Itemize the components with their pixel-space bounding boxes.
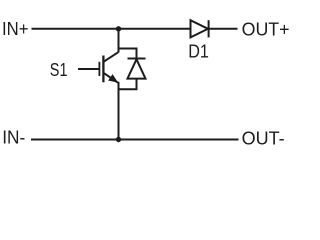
svg-text:D1: D1 xyxy=(188,42,209,62)
svg-text:OUT+: OUT+ xyxy=(242,20,290,40)
svg-text:IN-: IN- xyxy=(2,128,25,148)
svg-text:S1: S1 xyxy=(50,60,68,80)
svg-text:OUT-: OUT- xyxy=(242,129,285,149)
svg-text:IN+: IN+ xyxy=(2,19,29,39)
